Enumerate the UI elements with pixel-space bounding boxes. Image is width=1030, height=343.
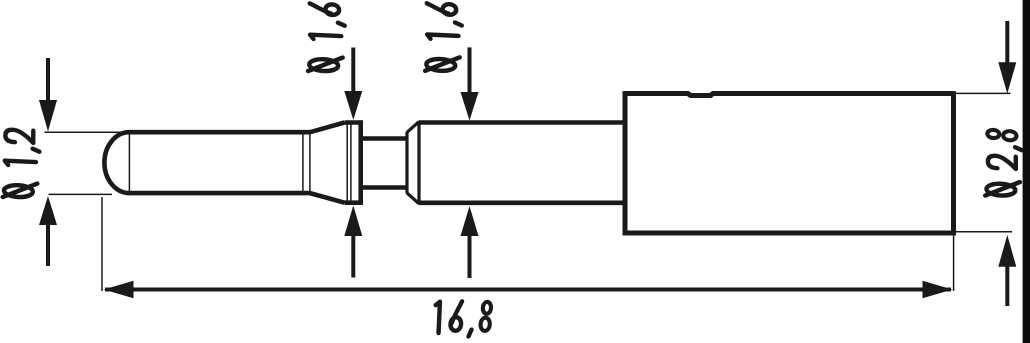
dim arrow shaft O1.2 bottom [46, 224, 50, 266]
dim arrow shaft O1.6b bottom [468, 235, 472, 278]
pin bottom line [128, 191, 310, 196]
dim arrow shaft O1.2 top [46, 58, 50, 101]
arrowhead O2.8 up [998, 235, 1016, 267]
extension line body top right [954, 92, 1011, 94]
body bottom edge [623, 231, 956, 236]
label O 1,2 (left, rotated) [3, 129, 40, 198]
pin top line [128, 130, 310, 135]
flare top edge [310, 123, 345, 133]
arrowhead O1.6a down [344, 91, 362, 120]
extension line 16.8 right [953, 233, 955, 291]
pin tip rounded cap [104, 132, 129, 193]
cylinder left rim [417, 122, 420, 204]
dim arrow shaft O2.8 bottom [1005, 266, 1009, 306]
dim arrow shaft O1.6a top [351, 48, 355, 93]
extension line pin top [45, 131, 128, 133]
black border bar right [1023, 0, 1030, 343]
flare bottom edge [310, 193, 345, 203]
arrowhead 16.8 left [104, 281, 134, 298]
extension line 16.8 left [101, 197, 103, 291]
collar right face [358, 120, 363, 205]
extension line body bottom right [954, 231, 1013, 233]
dimension line 16.8 [105, 288, 951, 292]
arrowhead O1.6a up [344, 206, 362, 237]
chamfer bottom diagonal [407, 193, 419, 204]
pin groove tick 1 [302, 132, 304, 193]
arrowhead O1.6b up [461, 206, 479, 236]
pin tip tangent line [128, 132, 130, 193]
label O 2,8 (right, rotated) [985, 130, 1022, 197]
extension line pin bottom [49, 193, 113, 195]
arrowhead 16.8 right [923, 281, 953, 298]
body right edge [951, 91, 956, 235]
neck top line [361, 136, 407, 141]
body left edge [623, 91, 628, 235]
neck bottom line [361, 185, 407, 190]
arrowhead O1.6b down [461, 92, 479, 121]
pin groove tick 2 [309, 132, 311, 193]
chamfer top diagonal [407, 122, 419, 133]
label O 1,6 (second, rotated) [425, 3, 462, 72]
collar band line 2 [350, 123, 352, 203]
arrowhead O1.2 up [39, 196, 57, 225]
collar top edge [345, 120, 361, 125]
dim arrow shaft O2.8 top [1005, 21, 1009, 63]
dim arrow shaft O1.6a bottom [351, 235, 355, 278]
arrowhead O2.8 down [998, 62, 1016, 93]
label 16,8 (bottom) [434, 301, 491, 336]
body top edge with seam notch [625, 94, 954, 96]
label O 1,6 (first, rotated) [308, 3, 345, 72]
dim arrow shaft O1.6b top [468, 47, 472, 93]
collar band line 1 [346, 123, 348, 203]
collar bottom edge [345, 200, 361, 205]
arrowhead O1.2 down [39, 100, 57, 132]
chamfer shoulder vertical [405, 132, 408, 194]
cylinder top line [419, 120, 625, 125]
cylinder bottom line [419, 201, 625, 206]
